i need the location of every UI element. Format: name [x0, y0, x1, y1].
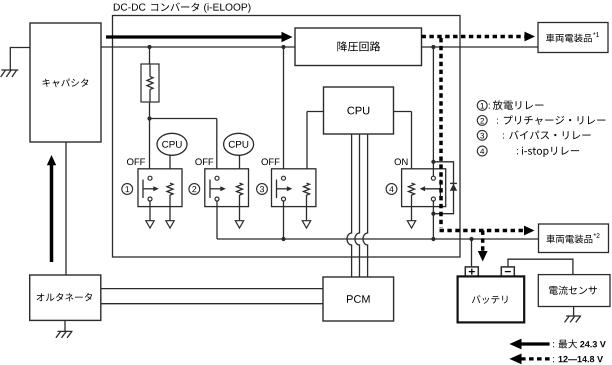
battery box バッテリ — [458, 276, 525, 322]
wire down to relay-3 switch — [283, 47, 285, 176]
dashed supply line to vehicle electrical 1 — [422, 35, 525, 39]
label OFF relay 3 — [262, 158, 280, 165]
CPU oval U-a (controls relay 1) — [157, 133, 187, 155]
wire step-down output to vehicle electrical 1 — [422, 46, 539, 48]
wire relay-4 switch to bus — [432, 201, 434, 239]
wire capacitor to ground — [10, 47, 30, 49]
wire alternator to PCM 2 — [101, 303, 323, 305]
wire current sensor to ground — [573, 307, 575, 317]
legend relay 4 name — [477, 146, 487, 156]
legend relay 2 name — [477, 116, 487, 126]
alternator box オルタネータ — [30, 275, 101, 320]
relay 2 box — [205, 169, 249, 207]
wire CPU to relay-1 coil — [169, 155, 171, 183]
wire down to relay-2 switch — [216, 119, 218, 177]
node junction relay-4 feed — [431, 45, 435, 49]
wire down to relay-4 switch — [432, 47, 434, 176]
dashed supply line to vehicle electrical 2 — [440, 229, 525, 233]
node junction at relay-3 feed — [281, 45, 285, 49]
vehicle electrical parts box 車両電装品*2 — [539, 224, 609, 253]
relay 4 box — [402, 169, 446, 207]
legend solid arrow max 24.3V — [521, 342, 550, 345]
diode D1 — [450, 182, 457, 184]
wire to discharge resistor — [149, 47, 151, 64]
legend label 最大 24.3 V — [553, 342, 554, 347]
ground (alternator) — [56, 331, 73, 337]
node bus junction battery feed — [469, 237, 473, 241]
wire CPU to relay-4 coil — [394, 111, 412, 113]
thick flow arrow capacitor to step-down circuit — [106, 35, 283, 38]
CPU main box — [324, 87, 394, 134]
diode parallel branch wiring — [433, 162, 453, 214]
wire common bus to battery / vehicle electrical 2 — [217, 238, 539, 240]
label 降圧回路 — [337, 41, 380, 51]
step-down circuit box 降圧回路 — [295, 28, 422, 66]
vehicle electrical parts box 車両電装品*1 — [538, 23, 608, 53]
discharge resistor box — [141, 64, 159, 102]
relay 3 coil ground arrow — [302, 221, 310, 228]
relay 4 coil ground arrow — [407, 221, 415, 228]
wire alternator to PCM 1 — [101, 288, 323, 290]
label キャパシタ — [43, 79, 89, 88]
arrowhead to battery plus — [478, 251, 488, 262]
relay 1 coil ground arrow — [166, 221, 174, 228]
relay 1 switch ground arrow — [146, 221, 154, 228]
relay 1 actuator arrow — [142, 180, 144, 199]
thick charge arrow alternator to capacitor — [50, 164, 54, 262]
arrowhead to vehicle electrical 1 — [525, 32, 536, 42]
ground (capacitor) — [1, 70, 19, 77]
relay 3 coil resistor — [304, 183, 310, 195]
relay 1 coil resistor — [167, 183, 173, 195]
wire relay-2 switch to bus — [216, 201, 218, 239]
relay number (4) — [386, 184, 397, 195]
relay 1 box — [138, 169, 182, 207]
relay 2 coil ground arrow — [235, 221, 243, 228]
PCM box — [323, 277, 394, 321]
wire capacitor output to step-down circuit — [101, 46, 295, 48]
relay 3 switch contacts — [282, 176, 286, 180]
relay 2 actuator arrow — [209, 180, 211, 199]
node diode branch bottom — [431, 212, 435, 216]
ground (current sensor) — [565, 316, 582, 322]
label 電流センサ — [549, 286, 597, 295]
legend relay 3 name — [477, 130, 487, 140]
relay 4 actuator arrow — [439, 180, 441, 199]
label 車両電装品*2 — [547, 235, 593, 244]
dashed supply branch down — [439, 38, 443, 228]
wire down to relay-1 switch — [149, 119, 151, 177]
relay number (1) — [122, 184, 133, 195]
relay 1 switch contacts — [148, 176, 152, 180]
label OFF relay 1 — [127, 158, 145, 165]
battery minus terminal — [501, 267, 514, 277]
relay 3 actuator arrow — [276, 180, 278, 199]
resistor (discharge) zigzag — [147, 77, 153, 90]
label OFF relay 2 — [195, 158, 213, 165]
relay number (2) — [189, 184, 200, 195]
relay 2 coil resistor — [237, 183, 243, 195]
node junction at resistor branch — [147, 45, 151, 49]
wire CPU to PCM signal line 3 (with crossover hop) — [363, 134, 368, 277]
node bus junction relay-4 — [431, 237, 435, 241]
relay 3 box — [272, 169, 316, 207]
relay 2 switch contacts — [215, 176, 219, 180]
CPU oval U-b (controls relay 2) — [224, 133, 254, 155]
wire bus to battery plus terminal — [471, 239, 473, 267]
node diode branch top — [431, 160, 435, 164]
wire battery minus to current sensor — [508, 259, 573, 274]
capacitor unit box キャパシタ — [30, 23, 101, 142]
wire CPU to PCM signal line 2 (with crossover hop) — [355, 134, 360, 277]
label バッテリ — [472, 295, 508, 304]
label 車両電装品*1 — [546, 34, 592, 43]
wire CPU to relay-2 coil — [239, 155, 241, 183]
legend label 12—14.8 V — [553, 357, 554, 362]
title label DC-DC コンバータ (i-ELOOP) — [114, 4, 146, 11]
wire junction to relay-2 branch — [150, 118, 217, 120]
battery plus terminal — [465, 267, 478, 277]
wire capacitor to alternator — [65, 142, 67, 275]
wire relay-1 switch to ground — [149, 201, 151, 221]
legend relay 1 name — [477, 101, 487, 111]
arrowhead to vehicle electrical 2 — [524, 226, 535, 236]
wire alternator to ground — [64, 320, 66, 331]
label オルタネータ — [37, 293, 93, 301]
node bus junction relay-3 — [281, 237, 285, 241]
relay number (3) — [257, 184, 268, 195]
label ON relay 4 — [395, 158, 408, 165]
wire relay-3 switch to bus — [283, 201, 285, 239]
wire resistor to relay-1 — [149, 102, 151, 119]
current sensor box 電流センサ — [538, 275, 610, 307]
node junction relay-1/relay-2 feed — [147, 116, 151, 120]
dashed supply branch to battery — [481, 231, 485, 252]
DC-DC converter outer enclosure box — [113, 16, 461, 258]
relay 4 coil resistor — [409, 183, 415, 195]
legend dashed arrow 12-14.8V — [521, 357, 550, 360]
relay 4 switch contacts — [431, 176, 435, 180]
wire CPU to relay-3 coil — [307, 111, 324, 113]
wire CPU to PCM signal line 1 (with crossover hop) — [347, 134, 352, 277]
